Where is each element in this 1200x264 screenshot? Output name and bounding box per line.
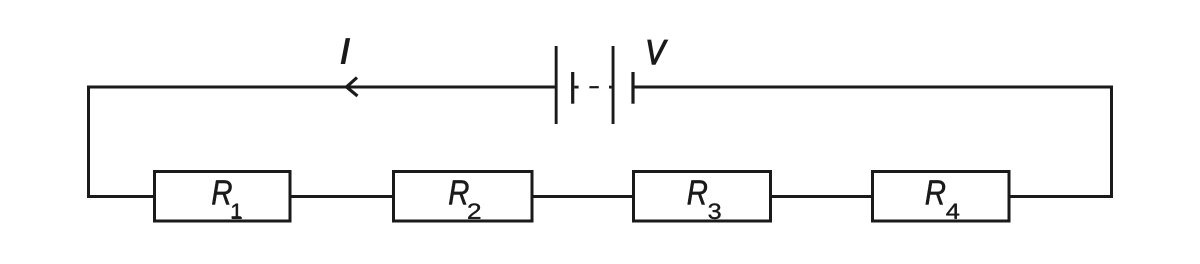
battery V: cell 2 short plate	[631, 72, 634, 104]
resistor R2 box	[394, 172, 533, 222]
wire R2-R3	[534, 195, 633, 198]
battery dashed link: tick from cell 1	[574, 86, 578, 89]
resistor R4 box	[873, 172, 1010, 222]
battery dashed link: tick to cell 2	[609, 86, 612, 89]
wire right loop: battery right terminal along top, down right side, to R4 right terminal	[633, 87, 1112, 197]
resistor R1 box	[155, 172, 291, 222]
battery V: cell 1 short plate	[571, 72, 574, 104]
label I (current)	[341, 39, 349, 64]
current arrowhead (pointing left) on top wire	[347, 78, 358, 97]
resistor R1 label	[212, 180, 231, 204]
resistor R2 label	[449, 180, 468, 204]
resistor R3 box	[634, 172, 771, 222]
wire R3-R4	[772, 195, 871, 198]
resistor R4 label	[926, 180, 945, 204]
battery V: cell 1 long plate	[555, 46, 558, 124]
battery dashed link: middle dash	[589, 86, 598, 88]
resistor R3 label	[688, 180, 707, 204]
label V (battery voltage)	[648, 40, 668, 64]
wire R1-R2	[292, 195, 393, 198]
battery V: cell 2 long plate	[612, 46, 615, 124]
wire left loop: R1 left terminal, up the left side, along the top to battery	[89, 87, 557, 197]
